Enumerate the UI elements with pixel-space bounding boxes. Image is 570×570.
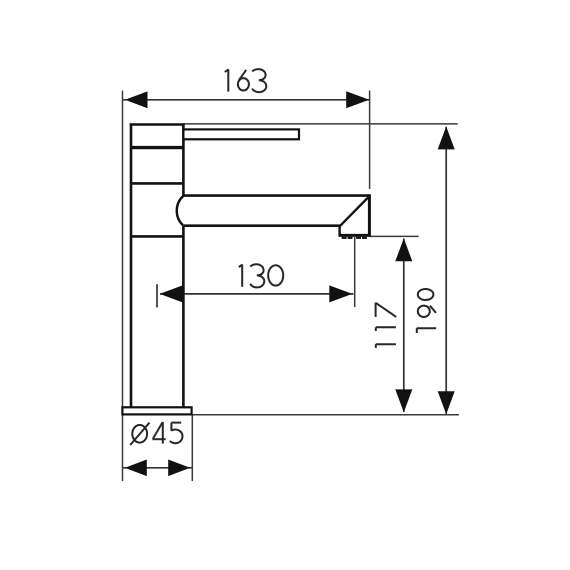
- spout top edge: [183, 194, 370, 197]
- faucet body left edge: [130, 123, 133, 407]
- arrowhead 130 left: [160, 285, 183, 302]
- body division line 3: [131, 235, 183, 238]
- arrowhead 163 right: [346, 91, 369, 108]
- spout right edge: [368, 194, 371, 235]
- aerator tooth 2: [348, 237, 353, 239]
- extension line: top of 190: [184, 123, 458, 125]
- body division line 2: [131, 182, 183, 185]
- spout rounded left end (arc): [177, 196, 184, 226]
- extension line: left (163 top / Ø45 bottom): [122, 91, 124, 482]
- dimension line Ø45: [123, 467, 192, 469]
- aerator tooth 3: [356, 237, 361, 239]
- arrowhead 190 top: [438, 126, 455, 149]
- spout bottom edge: [184, 224, 340, 227]
- label 163: [225, 69, 266, 92]
- dimension line 190: [445, 127, 447, 414]
- base flange: [122, 407, 191, 414]
- dimension line 117: [403, 239, 405, 413]
- body division line 1: [131, 146, 183, 149]
- dimension line 163: [123, 99, 369, 101]
- spout tip left edge: [338, 225, 340, 236]
- arrowhead 130 right: [329, 285, 352, 302]
- label 117 (rotated): [376, 303, 397, 348]
- arrowhead 163 left: [125, 91, 148, 108]
- dimension line 130: [160, 293, 354, 295]
- faucet body right edge upper: [182, 123, 185, 195]
- arrowhead 117 bottom: [395, 389, 412, 412]
- spout tip bottom edge: [339, 234, 371, 237]
- arrowhead 190 bottom: [438, 391, 455, 414]
- extension line: bottom baseline: [192, 414, 459, 416]
- handle lever bar: [183, 129, 299, 139]
- extension line: right of 163 (spout tip): [369, 91, 371, 190]
- faucet body top edge: [130, 123, 185, 126]
- aerator tooth 4: [362, 237, 367, 239]
- extension line: top of 117 (outlet level): [369, 235, 418, 237]
- tick: body centreline (130 left): [156, 284, 158, 307]
- label 190 (rotated): [417, 289, 436, 333]
- extension line: outlet centre (130 right): [354, 237, 356, 307]
- arrowhead 117 top: [395, 238, 412, 261]
- aerator tooth 1: [342, 237, 347, 239]
- label Ø45: [130, 422, 182, 445]
- arrowhead Ø45 left: [125, 460, 147, 477]
- extension line: right of Ø45: [191, 415, 193, 481]
- label 130: [239, 264, 284, 287]
- arrowhead Ø45 right: [168, 460, 190, 477]
- spout end slant: [340, 196, 369, 226]
- faucet body right edge lower: [182, 226, 185, 408]
